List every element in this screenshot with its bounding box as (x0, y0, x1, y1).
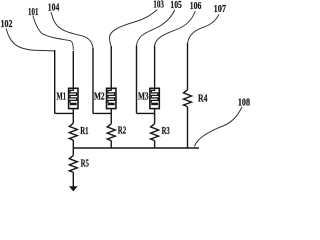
wire: M1 bottom connector (55, 112, 74, 114)
wire: R5 bottom to ground (72, 172, 74, 187)
wire: output bus node 108 (73, 147, 199, 149)
svg-text:105: 105 (170, 0, 182, 11)
svg-text:R1: R1 (80, 126, 88, 137)
svg-text:R2: R2 (118, 126, 126, 137)
wire: M2 bottom to R2 top (110, 109, 112, 124)
wire: R3 bottom to bus (154, 141, 156, 148)
resistor R5 (69, 156, 89, 173)
leader line 104 (51, 12, 93, 48)
resistor R1 (69, 123, 88, 140)
wire: M3 bottom to R3 top (154, 109, 156, 124)
wire: M3 bottom connector (137, 112, 155, 114)
svg-text:M1: M1 (56, 92, 66, 103)
wire: 107 input to R4 top (187, 43, 189, 90)
memristor M3 (138, 88, 159, 108)
svg-text:108: 108 (238, 97, 250, 108)
leader line 108 (195, 107, 243, 147)
ground (69, 186, 78, 191)
memristor M1 (56, 88, 78, 108)
svg-text:R4: R4 (198, 94, 208, 105)
svg-text:107: 107 (214, 4, 227, 15)
wire: M2 bottom connector (93, 112, 111, 114)
svg-text:106: 106 (190, 1, 202, 12)
resistor R4 (184, 90, 208, 107)
leader line 101 (33, 16, 74, 51)
wire: R4 bottom to bus (187, 107, 189, 148)
wire: 102 input vertical (M1 left) (54, 50, 56, 113)
leader line 105 (137, 10, 175, 46)
leader line 106 (155, 11, 196, 46)
wire: R2 bottom to bus (110, 141, 112, 148)
svg-text:103: 103 (153, 0, 164, 11)
wire: 106 input to M3 top (154, 46, 156, 89)
svg-text:M3: M3 (138, 92, 149, 103)
svg-text:R5: R5 (81, 159, 89, 170)
leader line 102 (6, 29, 55, 52)
leader line 103 (110, 10, 158, 48)
resistor R2 (107, 124, 126, 141)
svg-text:R3: R3 (162, 126, 170, 137)
wire: M1 bottom to R1 top (72, 109, 74, 124)
resistor R3 (151, 124, 170, 141)
wire: 101 input to M1 top (72, 51, 74, 88)
leader line 107 (188, 14, 220, 43)
wire: 104 input vertical (M2 left) (92, 48, 94, 113)
wire: 105 input vertical (M3 left) (136, 46, 138, 114)
memristor M2 (94, 88, 116, 108)
svg-text:104: 104 (48, 3, 60, 14)
wire: R1 bottom through bus to R5 top (72, 140, 74, 156)
wire: 103 input to M2 top (110, 46, 112, 88)
svg-text:102: 102 (1, 19, 13, 30)
svg-text:M2: M2 (94, 92, 105, 103)
